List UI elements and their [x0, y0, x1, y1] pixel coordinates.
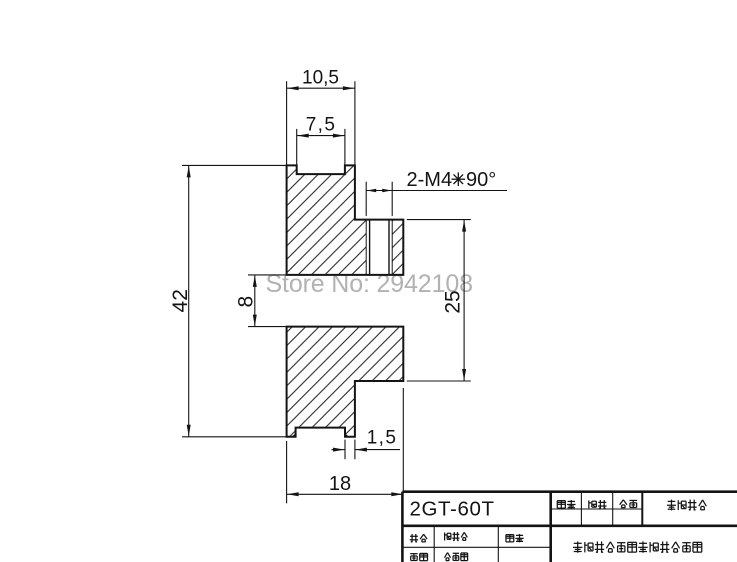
svg-text:10,5: 10,5: [302, 67, 339, 88]
dimension 10,5 top: [287, 67, 355, 164]
dimension 8 bore: [234, 275, 286, 327]
name Han Shoucun: [444, 553, 467, 561]
svg-text:1,5: 1,5: [367, 427, 398, 448]
dimension 7,5: [297, 115, 345, 175]
dimension 1,5 flange: [332, 427, 401, 459]
row label ZhiTu (drawn by): [410, 534, 427, 542]
dimension 18 bottom: [287, 388, 404, 503]
svg-text:18: 18: [329, 473, 351, 495]
svg-text:2GT-60T: 2GT-60T: [410, 498, 495, 521]
svg-text:90°: 90°: [466, 169, 496, 191]
part number 2GT-60T: [410, 498, 495, 521]
company name: [573, 541, 702, 552]
M4 tapped hole section lines: [366, 220, 392, 275]
row label ShenHe (checked): [410, 553, 427, 560]
cell label TuYangDaiHao (drawing code): [667, 500, 706, 511]
name Chen Xuzhou: [445, 532, 468, 541]
cell label CaiLiao (material): [620, 500, 637, 508]
svg-text:7,5: 7,5: [306, 115, 337, 136]
svg-text:25: 25: [441, 290, 464, 313]
pulley upper section (hatched): [287, 165, 404, 275]
row label RiQi (date): [506, 534, 524, 542]
dimension 25 hub: [407, 220, 471, 381]
dimension 2-M4x90 tapped holes: [366, 169, 507, 216]
svg-text:8: 8: [234, 296, 257, 308]
pulley lower section (hatched): [287, 327, 404, 437]
cell label BiLi (scale): [557, 500, 575, 509]
dimension 42 left: [169, 165, 287, 436]
cell label ShuLiang (qty): [589, 500, 607, 509]
watermark Store No: [266, 270, 473, 298]
svg-text:42: 42: [169, 289, 192, 312]
title block frame: [402, 492, 737, 562]
svg-text:2-M4: 2-M4: [407, 169, 453, 191]
